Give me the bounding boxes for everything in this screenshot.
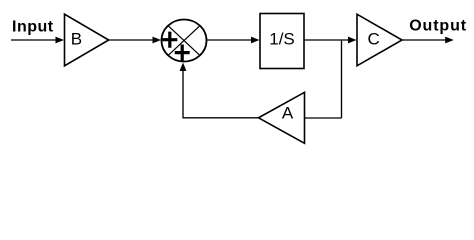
svg-text:C: C <box>367 30 379 49</box>
svg-text:1/S: 1/S <box>269 30 295 49</box>
svg-text:Output: Output <box>409 17 467 34</box>
wire A output to left <box>183 117 259 119</box>
wire integrator to C (with branch node) <box>304 37 357 44</box>
gain block A (triangle, points left) <box>259 92 305 143</box>
wire feedback horizontal into A <box>305 117 342 119</box>
plus sign (bottom input) <box>175 45 190 61</box>
wire B to summing junction <box>109 37 161 44</box>
integrator block 1/S <box>260 14 304 69</box>
svg-text:Input: Input <box>12 19 54 36</box>
svg-text:A: A <box>282 104 294 123</box>
summing junction X diagonals <box>168 26 200 56</box>
wire input arrow into B <box>11 37 64 44</box>
gain block B (triangle) <box>65 14 109 66</box>
plus sign (left input) <box>162 32 177 48</box>
wire feedback up into summing junction <box>180 63 187 119</box>
summing junction circle <box>162 20 207 62</box>
wire feedback branch down from node <box>341 40 343 118</box>
gain block C (triangle) <box>357 14 402 66</box>
wire output arrow <box>402 37 454 44</box>
svg-text:B: B <box>71 30 82 49</box>
wire summing junction to integrator <box>207 37 260 44</box>
